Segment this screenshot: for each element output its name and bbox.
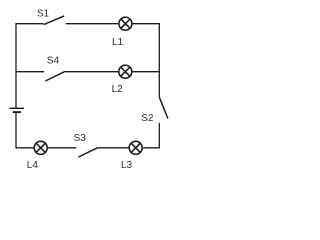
svg-text:L4: L4 <box>27 160 39 171</box>
wire row2: L2 to right bus <box>132 71 160 73</box>
wire bottom row: L4 to S3 <box>48 147 77 149</box>
lamp L1 <box>119 17 132 30</box>
wire row2: S4 to L2 <box>64 71 118 73</box>
switch S1 blade <box>44 16 64 25</box>
wire left bus bottom segment (battery down to bottom-left corner) <box>16 112 34 148</box>
switch S2 blade <box>159 97 168 119</box>
switch S3 blade <box>78 148 97 157</box>
wire bottom row: S3 to L3 <box>97 147 129 149</box>
wire top row: S1 to L1 <box>66 23 119 25</box>
svg-text:S2: S2 <box>141 113 154 124</box>
svg-text:S3: S3 <box>74 133 87 144</box>
lamp L2 <box>119 65 132 78</box>
wire top row: L1 to right bus <box>132 23 159 25</box>
svg-text:S4: S4 <box>47 56 60 67</box>
lamp L4 <box>34 141 47 154</box>
svg-text:S1: S1 <box>37 9 50 20</box>
wire right bus lower segment (below S2 to bottom-right corner) <box>143 123 159 148</box>
svg-text:L3: L3 <box>121 160 133 171</box>
svg-text:L1: L1 <box>112 37 124 48</box>
wire left bus top segment (top-left corner down to battery) <box>16 24 44 108</box>
battery B1 short plate <box>13 111 21 113</box>
svg-text:L2: L2 <box>112 84 124 95</box>
lamp L3 <box>129 141 142 154</box>
wire right bus upper segment (top-right corner down to S2) <box>158 23 160 97</box>
switch S4 blade <box>45 72 64 81</box>
wire row2: left bus to S4 <box>16 71 44 73</box>
battery B1 long plate <box>9 107 24 109</box>
